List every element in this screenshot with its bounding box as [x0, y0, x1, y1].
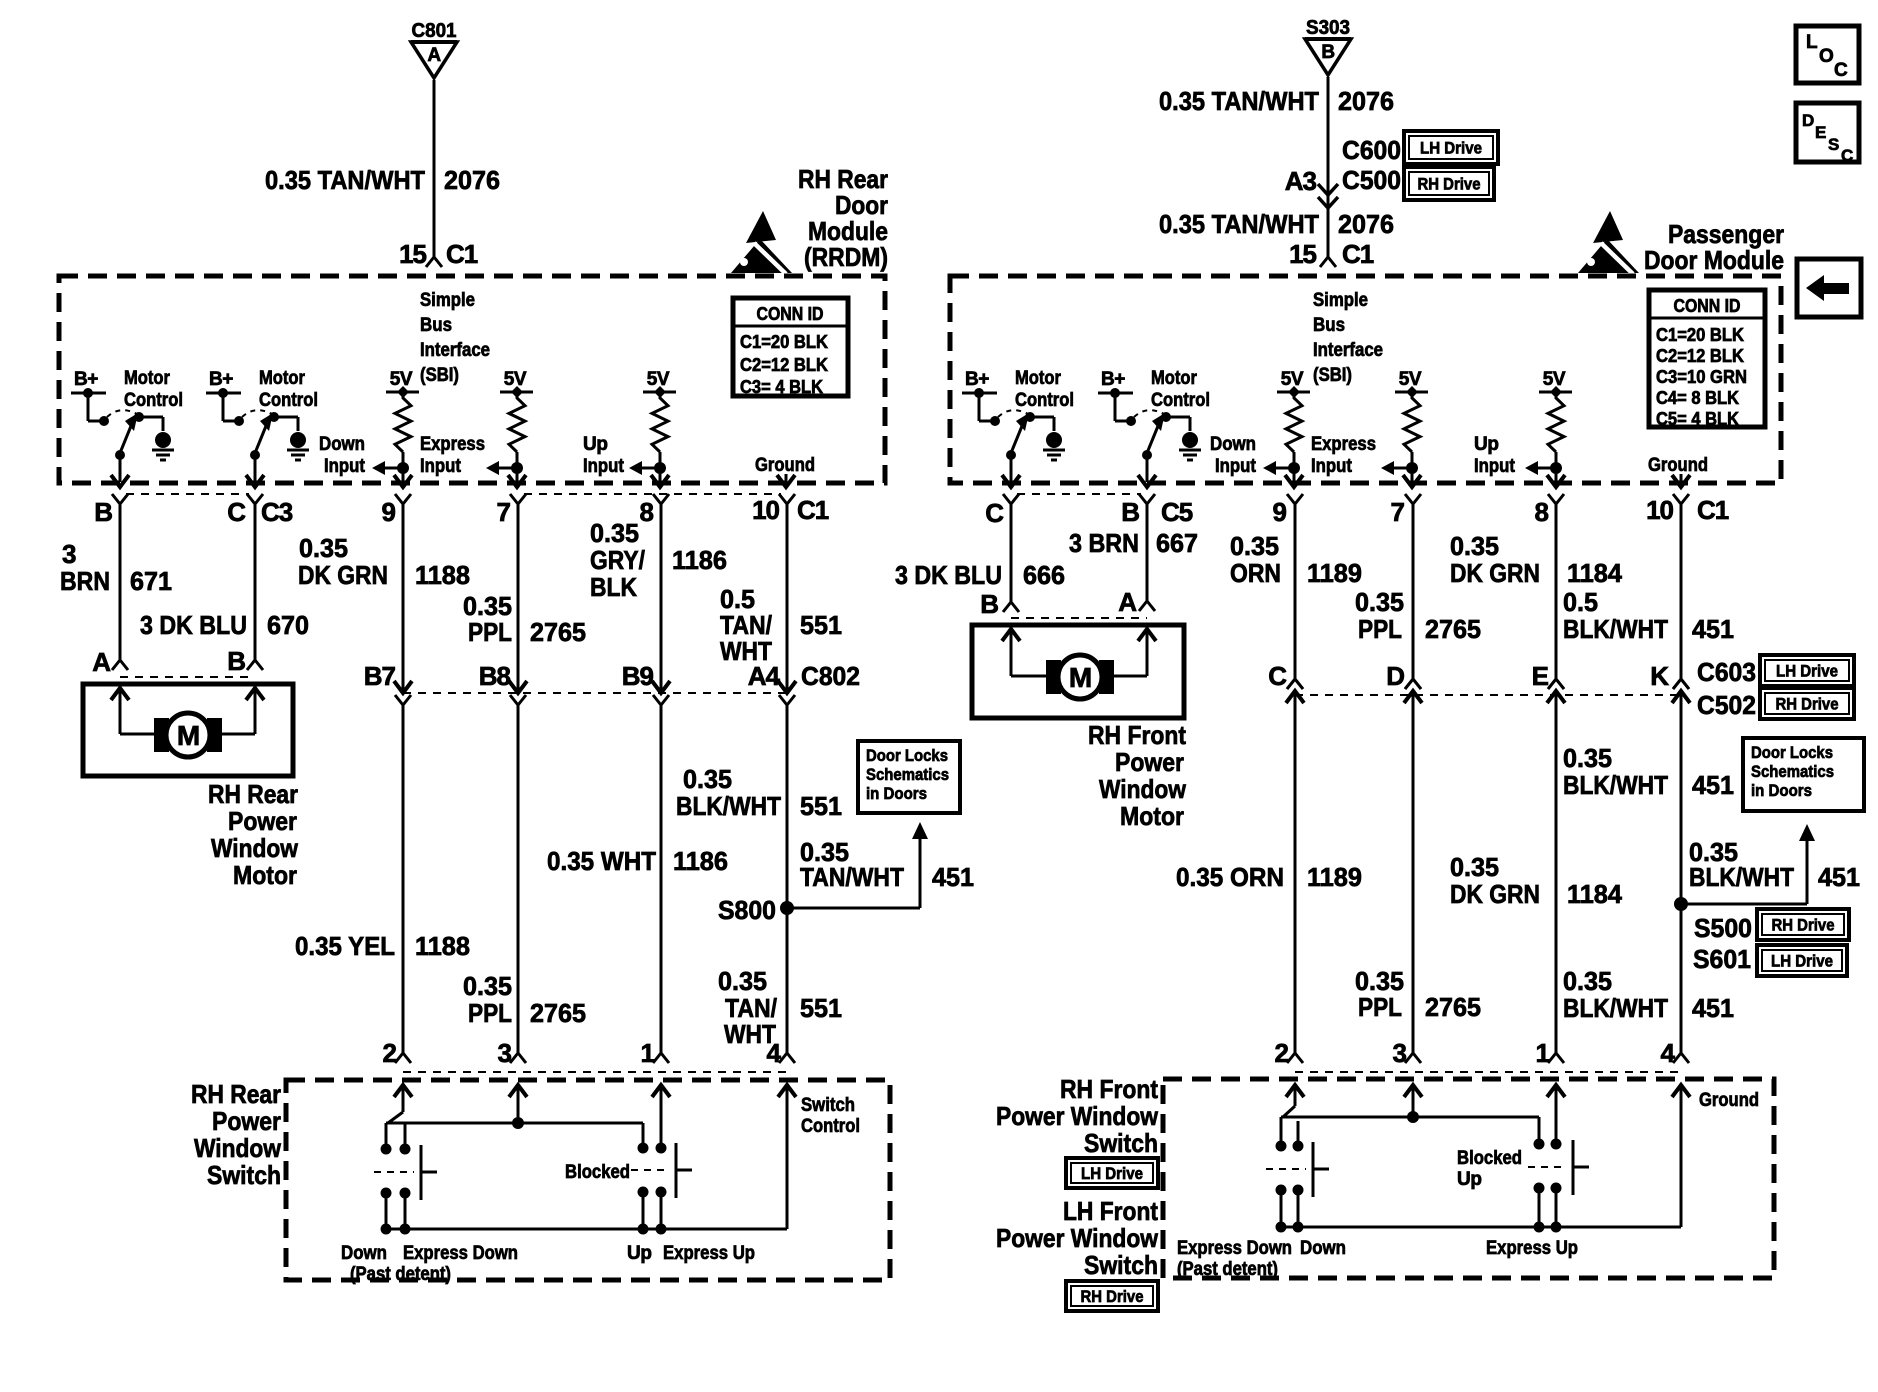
svg-text:DK GRN: DK GRN — [298, 560, 388, 590]
ESD symbol triangle — [1593, 211, 1623, 243]
svg-text:Ground: Ground — [1699, 1090, 1759, 1111]
svg-text:0.35: 0.35 — [683, 764, 732, 794]
PDM down-input pull-up input arrow — [1274, 467, 1294, 470]
svg-text:RH Rear: RH Rear — [208, 779, 298, 809]
wire RRDM pin 8 to switch pin 1, 0.35 GRY/BLK 1186 — [660, 504, 663, 691]
svg-text:Schematics: Schematics — [1751, 762, 1834, 781]
svg-text:Control: Control — [1015, 390, 1074, 411]
svg-text:BLK/WHT: BLK/WHT — [676, 791, 781, 821]
RH Rear window motor motor circle — [166, 713, 210, 757]
svg-text:LH Drive: LH Drive — [1081, 1164, 1143, 1183]
svg-text:2765: 2765 — [1425, 614, 1481, 644]
RRDM motor control 2 feed wire — [222, 393, 225, 421]
svg-text:1184: 1184 — [1567, 558, 1623, 588]
switch input arrow pin 1 — [660, 1085, 663, 1145]
svg-text:Door Locks: Door Locks — [866, 746, 948, 765]
svg-text:Control: Control — [801, 1116, 860, 1137]
wire S303 to PDM pin 15, circuit 2076 — [1327, 77, 1330, 257]
svg-text:Express Up: Express Up — [1486, 1238, 1578, 1259]
svg-text:0.35: 0.35 — [1450, 852, 1499, 882]
branch wire S800 to door locks, 0.35 TAN/WHT 451 — [787, 907, 920, 910]
svg-text:DK GRN: DK GRN — [1450, 558, 1540, 588]
svg-text:Express Up: Express Up — [663, 1243, 755, 1264]
switch connector dashed line (RRDM switch) — [403, 1071, 787, 1073]
svg-text:LH Drive: LH Drive — [1771, 952, 1833, 971]
svg-text:0.35: 0.35 — [1355, 587, 1404, 617]
wire switch pin 1 run, 0.35 WHT 1186 — [660, 705, 663, 1053]
svg-text:C: C — [985, 498, 1004, 528]
svg-text:Motor: Motor — [1120, 801, 1184, 831]
svg-text:1186: 1186 — [673, 846, 728, 876]
svg-text:C1: C1 — [446, 239, 478, 269]
wire switch pin 2 run, 0.35 YEL 1188 — [402, 705, 405, 1053]
svg-text:Schematics: Schematics — [866, 765, 949, 784]
svg-text:BLK/WHT: BLK/WHT — [1563, 770, 1668, 800]
connector pin PDM pin B — [1139, 494, 1155, 504]
RRDM motor control 1 switch lever — [120, 426, 131, 453]
svg-text:Input: Input — [324, 456, 366, 477]
connector pin RRDM pin C — [247, 494, 263, 504]
svg-text:Control: Control — [1151, 390, 1210, 411]
pin D (C603) — [1404, 691, 1422, 703]
svg-text:PPL: PPL — [1358, 614, 1402, 644]
svg-text:Ground: Ground — [755, 455, 815, 476]
svg-text:9: 9 — [1273, 497, 1287, 527]
svg-text:C1=20 BLK: C1=20 BLK — [740, 332, 828, 352]
svg-text:C603: C603 — [1697, 657, 1756, 687]
svg-text:0.35: 0.35 — [1230, 531, 1279, 561]
svg-text:Input: Input — [1474, 456, 1516, 477]
PDM motor control 2 feed wire — [1114, 393, 1117, 421]
svg-text:RH Rear: RH Rear — [191, 1079, 281, 1109]
svg-text:E: E — [1532, 661, 1549, 691]
svg-text:551: 551 — [800, 610, 842, 640]
svg-text:B: B — [94, 497, 112, 527]
RRDM up-input pull-up output node — [654, 462, 666, 474]
express-up contact lower — [656, 1187, 667, 1198]
svg-text:8: 8 — [1535, 497, 1549, 527]
svg-text:3: 3 — [62, 539, 76, 569]
svg-text:O: O — [1819, 46, 1833, 67]
wire PDM pin 7 to switch pin 3, 0.35 PPL 2765 — [1412, 504, 1415, 679]
svg-text:Power: Power — [212, 1106, 281, 1136]
svg-text:3 DK BLU: 3 DK BLU — [140, 610, 247, 640]
svg-text:451: 451 — [1692, 614, 1734, 644]
svg-text:A: A — [92, 647, 111, 677]
svg-text:Up: Up — [1457, 1169, 1482, 1190]
svg-text:B+: B+ — [1101, 369, 1125, 390]
wire PDM pin 8 to switch pin 1, 0.35 DK GRN 1184 — [1555, 504, 1558, 679]
svg-text:BLK/WHT: BLK/WHT — [1689, 862, 1794, 892]
svg-text:666: 666 — [1023, 560, 1065, 590]
wire RRDM pin 9 to switch pin 2, 0.35 DK GRN / YEL 1188 — [402, 504, 405, 691]
switch input arrow pin 3 — [517, 1085, 520, 1123]
RH Front window motor motor circle — [1058, 655, 1102, 699]
svg-text:Bus: Bus — [1313, 315, 1345, 336]
RRDM up-input pull-up wire to pin — [659, 468, 662, 482]
switch input arrow pin 2 — [402, 1085, 405, 1112]
svg-text:BLK/WHT: BLK/WHT — [1563, 614, 1668, 644]
express-down contact lower (PDM) — [1276, 1185, 1287, 1196]
up switch plunger — [675, 1143, 678, 1198]
svg-text:Interface: Interface — [1313, 340, 1383, 361]
in-line connector chevrons — [1318, 184, 1338, 195]
svg-text:Motor: Motor — [1015, 368, 1062, 389]
svg-text:C1: C1 — [1697, 495, 1729, 525]
svg-text:C: C — [1268, 661, 1287, 691]
svg-text:RH Drive: RH Drive — [1772, 916, 1835, 935]
PDM motor control 2 moving contact — [1161, 412, 1171, 422]
down contact stub upper — [385, 1123, 388, 1146]
svg-text:C500: C500 — [1342, 165, 1401, 195]
svg-text:BLK: BLK — [590, 572, 637, 602]
RRDM express-input pull-up output node — [511, 462, 523, 474]
svg-text:1186: 1186 — [672, 545, 727, 575]
RRDM motor control 1 feed wire — [87, 393, 90, 421]
svg-text:Ground: Ground — [1648, 455, 1708, 476]
svg-text:0.35: 0.35 — [1563, 966, 1612, 996]
svg-text:Control: Control — [124, 390, 183, 411]
wire PDM pin B to motor pin A, 3 BRN 667 — [1146, 504, 1149, 601]
svg-text:Up: Up — [1474, 434, 1499, 455]
in-line connector C802 dashed line — [403, 692, 787, 694]
svg-text:Down: Down — [341, 1243, 387, 1264]
pin K (C603) — [1672, 691, 1690, 703]
svg-text:C801: C801 — [412, 20, 457, 42]
svg-text:7: 7 — [1391, 497, 1405, 527]
RH Front Power Window Motor case — [972, 625, 1184, 718]
svg-text:S800: S800 — [718, 895, 776, 925]
svg-text:0.35: 0.35 — [463, 971, 512, 1001]
svg-text:C5= 4 BLK: C5= 4 BLK — [1656, 409, 1739, 429]
PDM down-input pull-up resistor — [1286, 392, 1302, 452]
svg-text:A: A — [427, 45, 441, 66]
svg-text:2076: 2076 — [1338, 86, 1394, 116]
pin B7 — [395, 695, 411, 705]
motor connector dashed line (RRDM motor) — [120, 676, 255, 678]
door locks schematics note box (RRDM side) — [858, 741, 960, 813]
svg-text:Simple: Simple — [420, 290, 475, 311]
svg-text:451: 451 — [1692, 993, 1734, 1023]
express-down contact stub upper (PDM) — [1280, 1117, 1283, 1143]
motor connector dashed line (PDM motor) — [1011, 617, 1147, 619]
svg-text:Input: Input — [1215, 456, 1257, 477]
svg-text:C5: C5 — [1161, 497, 1193, 527]
svg-text:3: 3 — [498, 1038, 512, 1068]
RRDM up-input pull-up resistor — [652, 392, 668, 452]
svg-text:A: A — [1118, 587, 1137, 617]
PDM up-input pull-up resistor — [1548, 392, 1564, 452]
RRDM express-input pull-up wire to pin — [516, 468, 519, 482]
svg-text:Control: Control — [259, 390, 318, 411]
svg-text:Power Window: Power Window — [996, 1223, 1159, 1253]
svg-text:2765: 2765 — [1425, 992, 1481, 1022]
RRDM express-input pull-up input arrow — [497, 467, 517, 470]
in-line connector C603/C502 dashed line — [1295, 694, 1681, 696]
svg-text:Door Locks: Door Locks — [1751, 743, 1833, 762]
svg-text:C: C — [1834, 60, 1848, 81]
svg-text:5V: 5V — [390, 369, 413, 390]
RRDM motor control 2 pivot and output wire — [250, 450, 260, 460]
svg-text:0.35: 0.35 — [1563, 743, 1612, 773]
svg-text:Input: Input — [1311, 456, 1353, 477]
svg-text:1: 1 — [1536, 1038, 1550, 1068]
RH Rear Power Window Motor case — [83, 684, 293, 776]
RRDM down-input pull-up input arrow — [383, 467, 403, 470]
svg-text:670: 670 — [267, 610, 309, 640]
svg-text:RH Drive: RH Drive — [1418, 175, 1481, 194]
PDM down-input pull-up output node — [1288, 462, 1300, 474]
motor lead A (PDM) — [1146, 629, 1149, 676]
bus drop to up contact (PDM) — [1538, 1117, 1541, 1141]
svg-text:D: D — [1802, 111, 1814, 130]
CONN ID table (PDM) — [1649, 290, 1765, 427]
svg-text:C3=10 GRN: C3=10 GRN — [1656, 367, 1747, 387]
connector pin PDM pin 10 — [1673, 494, 1689, 504]
RRDM down-input pull-up output node — [397, 462, 409, 474]
svg-text:A4: A4 — [748, 661, 781, 691]
svg-text:Down: Down — [319, 434, 365, 455]
svg-text:671: 671 — [130, 566, 172, 596]
svg-text:451: 451 — [1818, 862, 1860, 892]
svg-text:Window: Window — [194, 1133, 282, 1163]
motor lead B (PDM) — [1010, 629, 1013, 676]
svg-text:C1=20 BLK: C1=20 BLK — [1656, 325, 1744, 345]
svg-text:451: 451 — [1692, 770, 1734, 800]
svg-text:5V: 5V — [1543, 369, 1566, 390]
svg-text:Motor: Motor — [259, 368, 306, 389]
svg-text:BRN: BRN — [60, 566, 110, 596]
svg-text:Switch: Switch — [1084, 1128, 1158, 1158]
RRDM motor control 1 actuation dashed link — [107, 410, 137, 417]
wire RRDM pin 7 to switch pin 3, 0.35 PPL 2765 — [517, 504, 520, 691]
svg-text:15: 15 — [1289, 239, 1316, 269]
RRDM motor control 2 actuation dashed link — [242, 410, 272, 417]
switch common bus lower (PDM) — [1281, 1226, 1681, 1229]
svg-text:DK GRN: DK GRN — [1450, 879, 1540, 909]
motor lead A — [119, 688, 122, 734]
svg-text:(SBI): (SBI) — [420, 365, 459, 386]
switch input arrow pin 3 (PDM) — [1412, 1085, 1415, 1117]
svg-text:B: B — [980, 589, 998, 619]
svg-text:E: E — [1815, 123, 1826, 142]
svg-text:S500: S500 — [1694, 913, 1752, 943]
RRDM up-input pull-up input arrow — [640, 467, 660, 470]
svg-text:0.35: 0.35 — [1450, 531, 1499, 561]
wire switch pin 4 run, TAN/WHT 551 — [786, 705, 789, 1053]
svg-text:S303: S303 — [1306, 17, 1350, 39]
svg-text:LH Front: LH Front — [1063, 1196, 1158, 1226]
connector pin RRDM pin B — [112, 494, 128, 504]
PDM up-input pull-up output node — [1550, 462, 1562, 474]
svg-text:C600: C600 — [1342, 135, 1401, 165]
svg-text:0.35: 0.35 — [718, 966, 767, 996]
svg-text:LH Drive: LH Drive — [1420, 139, 1482, 158]
svg-text:B+: B+ — [965, 369, 989, 390]
svg-text:0.35 TAN/WHT: 0.35 TAN/WHT — [1159, 209, 1319, 239]
svg-text:1184: 1184 — [1567, 879, 1623, 909]
wire RRDM pin C to motor pin B, 3 DK BLU 670 — [254, 504, 257, 660]
svg-text:15: 15 — [399, 239, 426, 269]
pin B8 — [510, 695, 526, 705]
svg-text:551: 551 — [800, 993, 842, 1023]
svg-text:Window: Window — [1099, 774, 1187, 804]
RRDM down-input pull-up resistor — [395, 392, 411, 452]
svg-text:Motor: Motor — [1151, 368, 1198, 389]
svg-text:3 BRN: 3 BRN — [1069, 528, 1139, 558]
PDM motor control 1 switch lever — [1011, 426, 1022, 453]
svg-text:5V: 5V — [504, 369, 527, 390]
RRDM motor control 1 moving contact — [134, 412, 144, 422]
svg-text:0.35 TAN/WHT: 0.35 TAN/WHT — [265, 165, 425, 195]
connector pin RRDM pin 9 — [395, 494, 411, 504]
pin B9 — [653, 695, 669, 705]
splice S500/S601 — [1674, 897, 1688, 911]
svg-text:2076: 2076 — [1338, 209, 1394, 239]
PDM express-input pull-up output node — [1406, 462, 1418, 474]
svg-text:Down: Down — [1210, 434, 1256, 455]
svg-text:0.35: 0.35 — [590, 518, 639, 548]
svg-text:Power: Power — [228, 806, 297, 836]
svg-text:0.35 WHT: 0.35 WHT — [547, 846, 656, 876]
svg-text:1189: 1189 — [1307, 862, 1362, 892]
PDM motor control 1 actuation dashed link — [998, 410, 1028, 417]
wire switch pin 2 run, 0.35 ORN 1189 (lower) — [1294, 691, 1297, 1053]
svg-text:2076: 2076 — [444, 165, 500, 195]
svg-text:Motor: Motor — [124, 368, 171, 389]
down contact stub upper (PDM) — [1297, 1121, 1300, 1143]
PDM motor control 2 switch lever — [1147, 426, 1158, 453]
CONN ID table (RRDM) — [733, 298, 848, 396]
up contact lower — [638, 1187, 649, 1198]
DESC icon box — [1796, 103, 1859, 162]
svg-text:551: 551 — [800, 791, 842, 821]
svg-text:Up: Up — [627, 1243, 652, 1264]
svg-text:C: C — [227, 497, 246, 527]
RH Rear Power Window Switch boundary — [286, 1080, 890, 1280]
connector C3 in-line dashed — [126, 493, 249, 495]
branch wire to door locks, 0.35 BLK/WHT 451 — [1681, 903, 1807, 906]
svg-text:2: 2 — [383, 1038, 397, 1068]
svg-text:RH Front: RH Front — [1060, 1074, 1158, 1104]
svg-text:S: S — [1828, 135, 1839, 154]
PDM motor control 2 ground — [1182, 432, 1198, 448]
svg-text:Input: Input — [583, 456, 625, 477]
svg-text:Express: Express — [420, 434, 485, 455]
wire RRDM pin 10 to switch pin 4, 0.5 TAN/WHT 551 — [786, 504, 789, 691]
connector pin RRDM pin 7 — [510, 494, 526, 504]
express-down contact stub upper — [404, 1123, 407, 1146]
PDM motor control 2 pivot and output wire — [1142, 450, 1152, 460]
svg-text:C802: C802 — [801, 661, 860, 691]
svg-text:B9: B9 — [622, 661, 654, 691]
svg-text:in Doors: in Doors — [1751, 781, 1812, 800]
svg-text:Door Module: Door Module — [1644, 245, 1784, 275]
svg-text:3: 3 — [1393, 1038, 1407, 1068]
back-arrow icon box — [1797, 259, 1861, 317]
svg-text:S601: S601 — [1693, 944, 1751, 974]
pin C (C603) — [1286, 691, 1304, 703]
ground return wire to pin 4 (PDM) — [1680, 1085, 1683, 1227]
express-up contact lower (PDM) — [1551, 1183, 1562, 1194]
RRDM motor control 2 moving contact — [269, 412, 279, 422]
RRDM motor control 2 ground — [290, 432, 306, 448]
wire switch pin 1 run, 0.35 DK GRN 1184 (lower) — [1555, 691, 1558, 1053]
svg-text:2765: 2765 — [530, 998, 586, 1028]
down contact lower (PDM) — [1293, 1185, 1304, 1196]
svg-text:Bus: Bus — [420, 315, 452, 336]
svg-text:RH Front: RH Front — [1088, 720, 1186, 750]
svg-text:Blocked: Blocked — [1457, 1148, 1522, 1169]
switch bus upper (PDM) — [1283, 1106, 1295, 1117]
svg-text:Down: Down — [1300, 1238, 1346, 1259]
wire switch pin 3 run, 0.35 PPL 2765 (lower) — [1412, 691, 1415, 1053]
up switch plunger (PDM) — [1572, 1140, 1575, 1195]
door locks schematics note box (PDM side) — [1743, 738, 1864, 811]
PDM motor control 1 moving contact — [1025, 412, 1035, 422]
PDM express-input pull-up wire to pin — [1411, 468, 1414, 482]
switch bus upper — [388, 1112, 403, 1123]
svg-text:(SBI): (SBI) — [1313, 365, 1352, 386]
svg-text:0.35: 0.35 — [299, 533, 348, 563]
svg-text:10: 10 — [752, 495, 779, 525]
svg-text:D: D — [1386, 661, 1404, 691]
svg-text:PPL: PPL — [468, 998, 512, 1028]
wire C801 to RRDM pin 15, circuit 2076 — [433, 80, 436, 257]
svg-text:451: 451 — [932, 862, 974, 892]
svg-text:L: L — [1806, 32, 1818, 53]
PDM express-input pull-up resistor — [1404, 392, 1420, 452]
PDM motor control 1 pivot and output wire — [1006, 450, 1016, 460]
connector pin PDM pin 8 — [1548, 494, 1564, 504]
PDM motor control 1 feed wire — [978, 393, 981, 421]
wire PDM pin 9 to switch pin 2, 0.35 ORN 1189 — [1294, 504, 1297, 679]
svg-text:B7: B7 — [364, 661, 396, 691]
svg-text:5V: 5V — [1399, 369, 1422, 390]
svg-text:ORN: ORN — [1230, 558, 1281, 588]
svg-text:PPL: PPL — [1358, 992, 1402, 1022]
RH Front Power Window Switch boundary — [1163, 1079, 1774, 1278]
svg-text:Window: Window — [211, 833, 299, 863]
svg-text:Power: Power — [1115, 747, 1184, 777]
splice S800 — [780, 901, 794, 915]
wire switch pin 4 run, BLK/WHT 451 — [1680, 691, 1683, 1053]
svg-text:TAN/WHT: TAN/WHT — [800, 862, 904, 892]
svg-text:Switch: Switch — [207, 1160, 281, 1190]
svg-text:Express Down: Express Down — [403, 1243, 518, 1264]
svg-text:B: B — [227, 646, 245, 676]
ESD symbol mountain — [731, 239, 792, 273]
connector C5 in-line dashed (PDM) — [1017, 493, 1141, 495]
PDM motor control 2 actuation dashed link — [1134, 410, 1164, 417]
svg-text:RH Drive: RH Drive — [1081, 1287, 1144, 1306]
svg-text:in Doors: in Doors — [866, 784, 927, 803]
svg-text:0.5: 0.5 — [1563, 587, 1598, 617]
svg-text:BLK/WHT: BLK/WHT — [1563, 993, 1668, 1023]
PDM up-input pull-up input arrow — [1536, 467, 1556, 470]
PDM down-input pull-up wire to pin — [1293, 468, 1296, 482]
svg-text:4: 4 — [767, 1038, 782, 1068]
connector pin PDM pin 9 — [1287, 494, 1303, 504]
svg-text:C3= 4 BLK: C3= 4 BLK — [740, 377, 823, 397]
pin A4 / connector C802 label — [779, 695, 795, 705]
LOC icon box — [1796, 26, 1859, 83]
down switch plunger — [420, 1145, 423, 1200]
express-down contact lower — [400, 1188, 411, 1199]
RRDM down-input pull-up wire to pin — [402, 468, 405, 482]
svg-text:5V: 5V — [647, 369, 670, 390]
switch connector dashed line (front switch) — [1295, 1071, 1681, 1073]
